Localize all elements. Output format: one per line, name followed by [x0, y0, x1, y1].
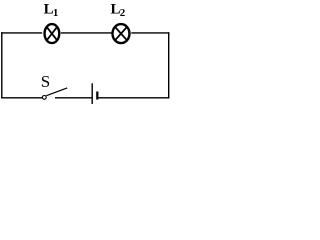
wire: right vertical	[168, 32, 170, 98]
battery: long plate (positive)	[91, 83, 93, 104]
switch S: pivot contact circle	[42, 96, 46, 100]
switch S: blade (open)	[46, 88, 67, 96]
wire: battery to switch segment	[55, 97, 92, 99]
lamp L1	[45, 24, 60, 43]
lamp L2	[113, 24, 130, 43]
wire: top-middle segment	[61, 32, 112, 34]
battery: short plate (negative)	[96, 92, 98, 100]
wire: top-right segment	[131, 32, 169, 34]
svg-text:S: S	[41, 72, 50, 91]
wire: top-left segment	[1, 32, 42, 34]
wire: bottom-right segment	[98, 97, 170, 99]
wire: left vertical	[1, 32, 3, 98]
svg-text:2: 2	[120, 7, 126, 19]
svg-text:1: 1	[53, 7, 59, 19]
wire: bottom-left segment	[1, 97, 42, 99]
